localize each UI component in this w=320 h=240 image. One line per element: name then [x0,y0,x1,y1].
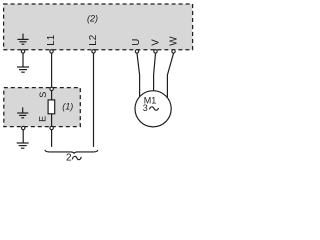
wire L1 to box (1) [51,53,53,87]
svg-text:E: E [38,116,48,122]
svg-text:V: V [150,39,161,46]
terminal S (output) on box (1) [50,87,53,90]
wire W to motor [167,53,173,97]
svg-text:(2): (2) [87,13,98,23]
wire fuse to E [51,114,53,127]
terminal L2 on box (2) [92,50,95,53]
svg-text:L2: L2 [88,35,99,46]
ground symbol inside box (2) [17,34,28,45]
brace for 2-phase supply [45,150,98,154]
svg-text:(1): (1) [62,102,73,112]
wire E down to supply [51,130,53,147]
svg-text:L1: L1 [46,35,57,46]
terminal V on box (2) [154,50,157,53]
svg-text:3: 3 [143,103,148,113]
svg-text:W: W [169,36,180,46]
terminal PE on box (1) [22,126,25,129]
earth ground symbol below box (2) [17,67,29,72]
wire U to motor [137,53,140,96]
motor M1 [135,91,171,127]
wire S to fuse [51,91,53,100]
drive enclosure box (2) [4,4,193,50]
wire V to motor [154,53,156,90]
svg-text:U: U [131,39,142,46]
svg-text:S: S [38,92,48,98]
fuse component in box (1) [48,100,55,114]
terminal E (input) on box (1) [50,126,53,129]
terminal W on box (2) [172,50,175,53]
wire PE to earth [22,53,24,67]
terminal U on box (2) [135,50,138,53]
terminal L1 on box (2) [50,50,53,53]
terminal PE on box (2) [21,50,24,53]
earth ground symbol below box (1) [17,143,29,148]
filter box (1) [4,88,81,127]
ground symbol inside box (1) [17,107,28,117]
wire L2 down to supply [93,53,95,146]
svg-text:2: 2 [66,153,72,164]
wire box (1) PE to earth [22,130,24,143]
